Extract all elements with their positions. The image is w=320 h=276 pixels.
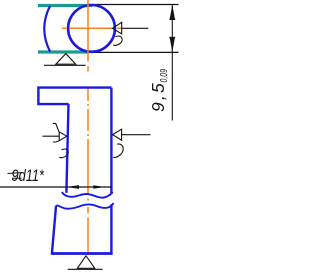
svg-text:9,5: 9,5	[148, 81, 168, 112]
arrow down	[170, 38, 175, 53]
left clamp arrow	[59, 132, 67, 141]
rotation curl under clamp	[113, 36, 122, 45]
width dimension line	[0, 186, 111, 188]
vertical centerline (orange)	[87, 0, 89, 253]
left clamp lower hook	[53, 141, 59, 142]
flange outline	[38, 88, 111, 105]
concave left edge arc	[44, 6, 50, 52]
upper break wave	[62, 192, 113, 198]
left clamp upper hook	[53, 123, 59, 131]
smudge under text	[12, 177, 22, 179]
lower piece right edge	[110, 204, 112, 253]
right edge of part	[110, 88, 112, 194]
support base line	[44, 64, 86, 66]
arrow up	[170, 4, 175, 19]
support (datum) triangle under top view	[56, 54, 76, 65]
svg-text:0,09: 0,09	[159, 69, 170, 83]
support (datum) triangle bottom	[77, 256, 95, 268]
right clamp curl	[113, 144, 123, 158]
left clamp curl	[59, 149, 68, 158]
dimension line 9,5	[171, 4, 173, 120]
width dim arrow left	[67, 185, 79, 189]
clamp tail line	[122, 27, 149, 29]
lower piece left edge	[52, 206, 56, 252]
svg-text:9d11*: 9d11*	[12, 166, 46, 185]
extension line top	[92, 4, 179, 6]
top machined face (teal)	[38, 4, 92, 7]
right clamp arrow	[113, 129, 122, 140]
clamp arrow at circle	[113, 22, 122, 34]
lower break wave	[56, 203, 114, 209]
right clamp tail	[122, 134, 151, 136]
bottom machined face (teal)	[38, 50, 89, 53]
width dim arrow right	[93, 185, 105, 189]
leader tick through text	[8, 173, 23, 174]
bottom edge	[51, 252, 113, 255]
workpiece circle	[68, 5, 115, 52]
extension line bottom	[89, 51, 179, 53]
left clamp tail	[42, 135, 59, 137]
horizontal centerline (orange)	[62, 27, 122, 29]
support base line bottom	[68, 268, 103, 270]
tapered left edge of stem	[66, 104, 68, 193]
